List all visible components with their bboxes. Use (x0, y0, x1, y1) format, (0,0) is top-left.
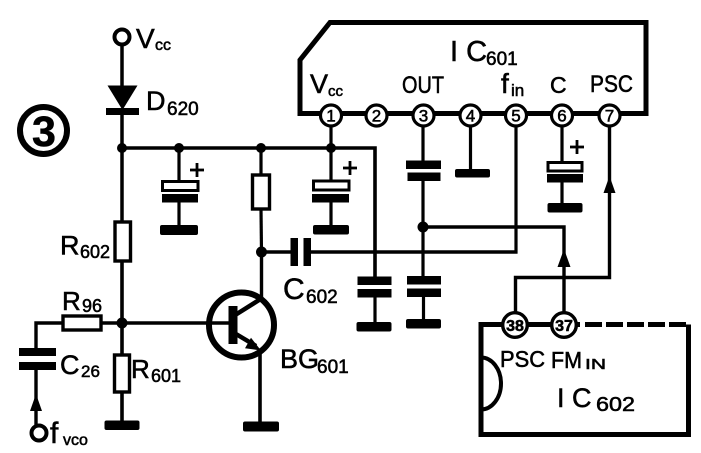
svg-text:601: 601 (317, 357, 349, 378)
node base (117, 318, 128, 329)
electrolytic capacitor E1 (162, 163, 204, 203)
wire C26 to fvco (34, 370, 37, 425)
electrolytic capacitor E3 (547, 140, 584, 183)
capacitor below bus corner (358, 277, 392, 298)
svg-text:V: V (136, 23, 155, 54)
svg-text:BG: BG (280, 344, 319, 374)
pin 3 (413, 105, 434, 126)
svg-text:PSC: PSC (590, 71, 633, 98)
pin 38 (503, 313, 528, 338)
svg-text:C: C (283, 273, 305, 306)
svg-text:IN: IN (585, 356, 606, 373)
resistor R602 (60, 222, 131, 262)
node bus-cap1 (174, 143, 184, 153)
ground E2 (313, 225, 349, 235)
IC601 outline (300, 23, 646, 114)
wire Vcc to diode (120, 45, 124, 88)
wire E1 to ground (177, 202, 180, 227)
arrow up above fvco (30, 394, 42, 411)
svg-text:vco: vco (63, 432, 88, 449)
wire cap to lower cap (421, 181, 424, 278)
label Vcc pin1 (310, 69, 344, 100)
terminal fvco (32, 417, 89, 450)
pin 2 (366, 105, 387, 126)
svg-text:C: C (60, 350, 80, 380)
wire pin5 down (514, 123, 517, 254)
node bus-main (117, 143, 127, 153)
pin 5 (506, 105, 527, 126)
capacitor C26 (19, 348, 100, 381)
wire E2 to ground (329, 202, 332, 227)
svg-text:38: 38 (506, 318, 524, 335)
IC602 outline (481, 325, 689, 435)
svg-text:FM: FM (551, 347, 582, 373)
wire bus to mid resistor (259, 148, 262, 176)
svg-text:I C: I C (557, 383, 592, 413)
label IC602 (557, 383, 635, 416)
pin 37 (552, 313, 577, 338)
electrolytic capacitor E2 (312, 161, 357, 203)
wire bus-corner cap to ground (373, 297, 376, 324)
resistor R601 (115, 354, 182, 392)
ground below bus corner cap (357, 322, 392, 332)
svg-text:602: 602 (596, 394, 635, 416)
svg-text:C: C (550, 72, 567, 98)
figure number 3 (20, 107, 67, 156)
ground E1 (160, 225, 198, 235)
label fin pin5 (501, 68, 524, 100)
wire bus to capacitor E1 (177, 148, 180, 184)
svg-text:6: 6 (557, 107, 566, 126)
wire pin3 to cap (421, 123, 424, 163)
capacitor C602 (283, 238, 338, 308)
transistor BG601 (209, 293, 349, 379)
svg-text:R: R (60, 231, 80, 261)
resistor mid (253, 175, 270, 209)
ground below pin3 caps (406, 319, 441, 329)
resistor R96 (62, 286, 102, 330)
pin 6 (552, 105, 573, 126)
wire out-branch to IC602 pin37 (423, 227, 564, 313)
ground emitter (243, 422, 279, 432)
wire emitter (258, 350, 262, 424)
arrow up on pin7 wire (604, 176, 616, 193)
wire diode to bus and down to R602 (120, 113, 124, 222)
svg-text:620: 620 (167, 99, 199, 120)
svg-text:26: 26 (81, 362, 100, 381)
svg-text:cc: cc (328, 83, 344, 100)
svg-text:R: R (131, 354, 150, 384)
diode D620 (106, 86, 199, 121)
wire mid resistor to collector node (259, 209, 263, 253)
svg-text:5: 5 (511, 107, 520, 126)
wire base (101, 321, 229, 325)
label FMIN pin37 (551, 347, 606, 373)
wire pin7 to IC602 pin38 (516, 123, 610, 313)
svg-text:3: 3 (419, 107, 428, 126)
ground E3 (548, 203, 583, 213)
arrow up on pin37 wire (558, 249, 571, 267)
svg-text:f: f (50, 417, 59, 450)
svg-text:in: in (511, 81, 524, 100)
svg-text:cc: cc (155, 37, 171, 54)
pin 1 (321, 105, 342, 126)
svg-text:37: 37 (555, 318, 573, 335)
svg-text:V: V (310, 69, 328, 99)
wire collector node to C602 (262, 250, 293, 253)
svg-text:PSC: PSC (500, 346, 545, 372)
node out-branch (418, 222, 429, 233)
svg-text:96: 96 (82, 296, 102, 316)
svg-text:D: D (146, 86, 166, 116)
supply bus wire (122, 148, 375, 278)
svg-text:f: f (501, 68, 509, 99)
wire E3 to ground (560, 182, 563, 205)
capacitor lower below pin3 (407, 276, 441, 297)
wire pin6 to cap (560, 123, 563, 165)
pin 4 (460, 105, 481, 126)
svg-text:7: 7 (605, 107, 614, 126)
capacitor below pin3 (406, 161, 441, 182)
svg-text:1: 1 (326, 107, 335, 126)
wire lower cap to ground (422, 297, 425, 321)
svg-text:601: 601 (151, 366, 181, 386)
svg-text:4: 4 (466, 107, 475, 126)
svg-text:602: 602 (80, 242, 110, 262)
svg-text:3: 3 (32, 108, 56, 156)
wire R96 to C26 (36, 323, 64, 351)
ground below R601 (105, 421, 140, 431)
node collector (256, 247, 267, 258)
svg-text:2: 2 (372, 107, 381, 126)
svg-text:OUT: OUT (402, 72, 444, 99)
wire C602 to pin5 (311, 250, 518, 253)
pin 7 (599, 105, 620, 126)
wire collector (260, 252, 263, 298)
svg-text:R: R (62, 286, 81, 316)
ground pin4 (455, 169, 490, 178)
node bus-pin1 (326, 143, 336, 153)
node bus-resistor (256, 143, 266, 153)
wire pin1 to bus and capacitor E2 (329, 123, 332, 183)
svg-text:602: 602 (306, 287, 338, 308)
svg-text:I C: I C (450, 36, 487, 68)
wire pin4 to ground (469, 123, 472, 170)
wire R602 to base node to R601 and ground (120, 261, 124, 423)
terminal Vcc (115, 23, 172, 54)
label IC601 (450, 36, 518, 70)
svg-text:601: 601 (486, 49, 518, 70)
